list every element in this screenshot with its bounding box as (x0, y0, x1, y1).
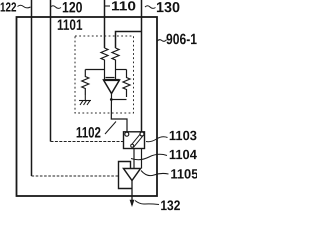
label 1102 (76, 122, 116, 142)
switch 1103 box (124, 132, 145, 149)
junction dot (110, 98, 113, 101)
resistor to ground (82, 70, 89, 96)
label 120 (51, 0, 83, 16)
wire 130 (141, 0, 143, 132)
op-amp input stub left (104, 70, 106, 81)
svg-text:906-1: 906-1 (166, 31, 197, 48)
amplifier 1105 triangle (124, 169, 141, 181)
op-amp input bar (106, 77, 115, 79)
wire feedback bottom (111, 99, 126, 101)
label 1105 (141, 166, 199, 181)
wire node left (85, 69, 104, 71)
op-amp input stub right (115, 70, 117, 81)
wire 110 (104, 0, 106, 48)
svg-text:132: 132 (160, 197, 180, 211)
block 1104 (119, 162, 132, 189)
wire 120 horizontal run (51, 141, 124, 143)
op-amp top edge emphasis (104, 79, 120, 81)
switch lever (131, 135, 143, 148)
label 110 (105, 0, 137, 13)
wire 130 branch (116, 32, 142, 49)
resistor R-130 (112, 48, 119, 70)
label 130 (145, 0, 180, 16)
wire op-amp output (111, 94, 127, 133)
switch contact right (140, 132, 144, 136)
wire switch output (133, 149, 135, 169)
wire node right (116, 69, 127, 71)
switch contact left (125, 132, 129, 136)
wire 122 (31, 0, 33, 176)
svg-text:1103: 1103 (169, 128, 197, 143)
svg-text:110: 110 (111, 0, 136, 13)
svg-text:120: 120 (62, 0, 83, 16)
svg-text:1104: 1104 (169, 147, 197, 162)
wire output 132 (131, 181, 133, 206)
arrowhead 132 (130, 200, 135, 207)
wire 120 (50, 0, 52, 142)
svg-text:122: 122 (0, 0, 17, 15)
svg-text:130: 130 (156, 0, 180, 16)
resistor R-110 (101, 48, 108, 70)
svg-text:1105: 1105 (170, 166, 197, 181)
wire 130 to amplifier (141, 149, 143, 169)
svg-text:1101: 1101 (57, 17, 83, 34)
label 906-1 (157, 31, 197, 48)
svg-text:1102: 1102 (76, 125, 101, 142)
comparator module 1101 dashed box (75, 36, 134, 113)
label 122 (0, 0, 30, 15)
module 906-1 box (17, 17, 158, 196)
label 1104 (131, 147, 197, 162)
wire 122 horizontal run (32, 175, 119, 177)
op-amp U1102 triangle (104, 80, 120, 94)
label 1103 (146, 128, 197, 143)
ground (79, 95, 91, 105)
label 132 (135, 197, 181, 213)
resistor feedback (123, 70, 130, 98)
